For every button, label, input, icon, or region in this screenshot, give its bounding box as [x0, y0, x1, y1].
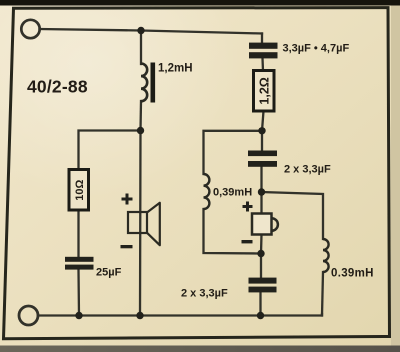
wire node C to R1 branch — [79, 131, 141, 169]
svg-text:0.39mH: 0.39mH — [331, 268, 374, 280]
node C junction dot — [137, 127, 144, 134]
wire L1 bottom lead — [139, 101, 142, 131]
inductor L1 core bar — [151, 63, 156, 103]
svg-text:2 x 3,3µF: 2 x 3,3µF — [181, 288, 228, 300]
wire node F to tweeter — [260, 192, 262, 214]
wire node D to C4 — [260, 254, 262, 279]
wire node F to L3 branch — [262, 192, 324, 239]
svg-text:1,2Ω: 1,2Ω — [257, 77, 271, 104]
wire C1 lead — [261, 34, 263, 44]
tweeter plus sign — [243, 202, 253, 212]
junction dot rail R1 branch — [75, 312, 82, 319]
node F junction dot — [258, 188, 265, 195]
wire C2 to bottom rail — [77, 270, 80, 316]
svg-text:10Ω: 10Ω — [74, 179, 86, 200]
wire node B to C3 — [261, 131, 263, 151]
wire woofer branch — [139, 131, 142, 316]
capacitor C3 plate 2 — [248, 161, 277, 167]
capacitor C3 plate 1 — [248, 151, 277, 157]
resistor R1 box — [69, 170, 89, 211]
right page edge strip — [391, 5, 400, 352]
capacitor C4 plate 2 — [249, 287, 277, 293]
woofer cone — [147, 203, 160, 245]
junction dot rail woofer branch — [136, 312, 143, 319]
top scan bar — [0, 0, 400, 6]
terminal input bottom — [19, 306, 38, 325]
svg-text:40/2-88: 40/2-88 — [27, 77, 88, 97]
wire L3 to bottom rail — [322, 272, 323, 316]
capacitor C4 plate 1 — [249, 278, 277, 284]
wire L1 top lead — [140, 31, 142, 65]
woofer plus sign — [122, 194, 133, 205]
wire R2 to node B — [262, 111, 264, 131]
tweeter minus sign — [242, 240, 253, 243]
terminal input top — [21, 20, 39, 38]
junction dot rail C4 branch — [257, 312, 264, 319]
woofer box — [128, 212, 147, 233]
wire C4 to bottom rail — [259, 292, 261, 316]
node A junction dot — [137, 27, 144, 34]
svg-text:2 x 3,3µF: 2 x 3,3µF — [284, 163, 331, 175]
capacitor C1 plate 2 — [249, 52, 278, 58]
capacitor C1 plate 1 — [249, 43, 278, 49]
bottom scan bar — [0, 346, 400, 352]
capacitor C2 plate 1 — [65, 257, 94, 262]
wire tweeter to node D — [260, 235, 263, 254]
wire R1 to C2 — [77, 210, 79, 258]
capacitor C2 plate 2 — [65, 265, 94, 270]
svg-text:1,2mH: 1,2mH — [158, 63, 193, 75]
node D junction dot — [257, 250, 264, 257]
wire top rail — [40, 29, 263, 34]
tweeter box — [252, 214, 272, 235]
wire node B to L2 branch — [204, 131, 263, 174]
inductor L1 coil — [141, 64, 147, 102]
svg-text:3,3µF • 4,7µF: 3,3µF • 4,7µF — [283, 43, 350, 55]
svg-text:0,39mH: 0,39mH — [213, 187, 252, 199]
inductor L3 coil — [323, 239, 329, 272]
wire L2 bottom to node D — [204, 209, 262, 254]
woofer minus sign — [121, 245, 133, 248]
resistor R2 box — [254, 71, 275, 112]
inductor L2 coil — [204, 174, 210, 209]
tweeter dome — [272, 218, 278, 231]
wire bottom rail — [38, 314, 322, 316]
wire C3 to node F — [260, 167, 262, 193]
node B junction dot — [258, 127, 265, 134]
wire C1 to R2 — [261, 58, 264, 71]
svg-text:25µF: 25µF — [96, 267, 122, 279]
